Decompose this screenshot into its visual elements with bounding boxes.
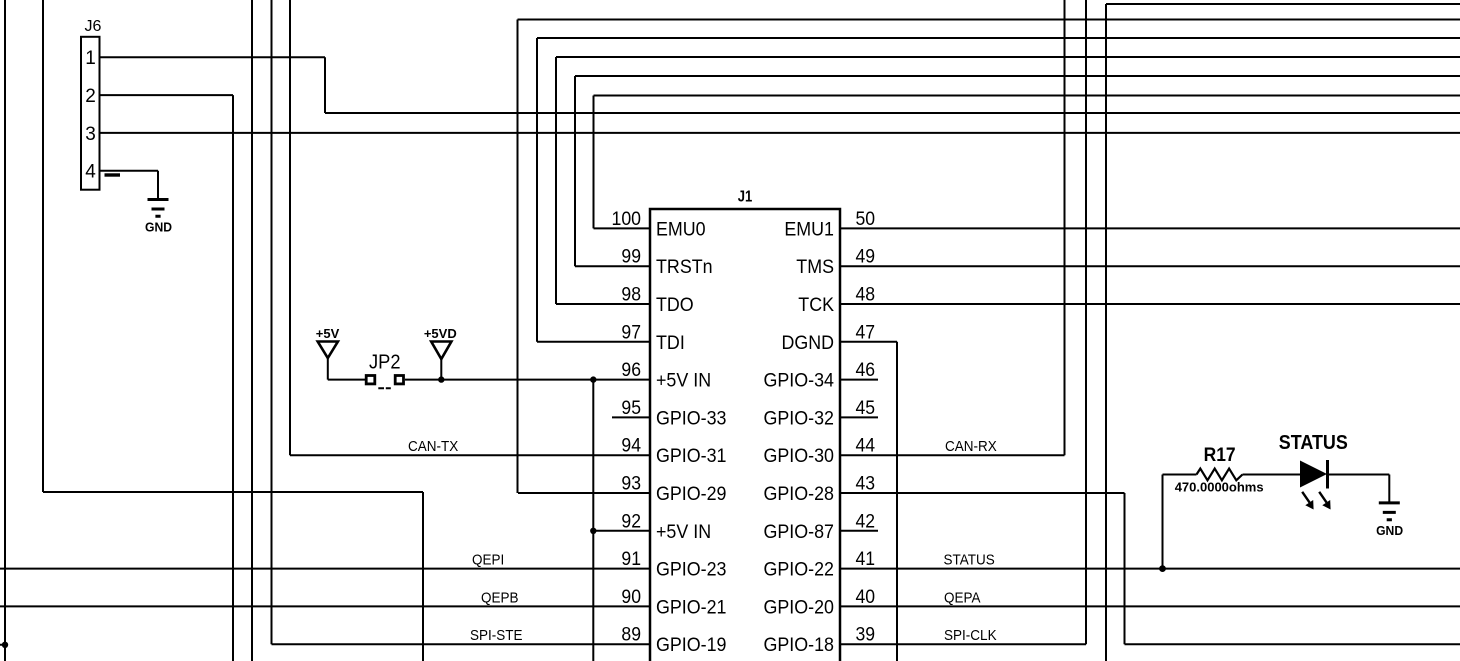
svg-text:TMS: TMS [796,257,834,278]
svg-text:GPIO-22: GPIO-22 [764,560,835,581]
svg-text:DGND: DGND [782,333,835,354]
svg-text:+5V IN: +5V IN [656,371,711,392]
svg-text:GPIO-21: GPIO-21 [656,597,727,618]
svg-text:1: 1 [85,48,96,69]
svg-text:2: 2 [85,86,96,107]
svg-text:40: 40 [856,587,876,608]
svg-text:43: 43 [856,474,876,495]
svg-text:100: 100 [612,209,642,230]
svg-text:GPIO-20: GPIO-20 [764,597,835,618]
svg-text:49: 49 [856,247,876,268]
svg-text:50: 50 [856,209,876,230]
svg-text:90: 90 [621,587,641,608]
svg-text:GPIO-34: GPIO-34 [764,371,835,392]
svg-text:4: 4 [85,162,96,183]
svg-text:EMU1: EMU1 [784,219,834,240]
svg-text:EMU0: EMU0 [656,219,706,240]
svg-text:GPIO-29: GPIO-29 [656,484,727,505]
svg-text:TDI: TDI [656,333,685,354]
svg-text:QEPB: QEPB [481,589,519,606]
svg-text:99: 99 [621,247,641,268]
svg-text:GPIO-23: GPIO-23 [656,560,727,581]
svg-text:97: 97 [621,322,641,343]
svg-text:STATUS: STATUS [1279,432,1348,454]
svg-text:GND: GND [1376,523,1403,538]
svg-text:93: 93 [621,474,641,495]
svg-text:J1: J1 [738,189,753,206]
svg-text:44: 44 [856,436,876,457]
svg-text:R17: R17 [1204,445,1236,466]
svg-text:89: 89 [621,625,641,646]
svg-text:45: 45 [856,398,876,419]
svg-text:STATUS: STATUS [944,552,995,569]
svg-text:48: 48 [856,285,876,306]
svg-text:46: 46 [856,360,876,381]
svg-text:TDO: TDO [656,295,694,316]
svg-text:SPI-STE: SPI-STE [470,627,523,644]
svg-text:96: 96 [621,360,641,381]
svg-text:CAN-TX: CAN-TX [408,438,458,455]
svg-text:GPIO-32: GPIO-32 [764,408,835,429]
svg-text:41: 41 [856,549,876,570]
svg-text:GPIO-33: GPIO-33 [656,408,727,429]
svg-text:TCK: TCK [798,295,834,316]
svg-text:J6: J6 [85,18,102,35]
svg-text:92: 92 [621,511,641,532]
svg-text:95: 95 [621,398,641,419]
svg-text:GND: GND [145,220,172,235]
svg-text:QEPA: QEPA [944,589,981,606]
svg-text:3: 3 [85,124,96,145]
svg-text:+5V: +5V [316,326,340,341]
svg-text:GPIO-31: GPIO-31 [656,446,727,467]
svg-text:TRSTn: TRSTn [656,257,713,278]
svg-text:47: 47 [856,322,876,343]
svg-text:91: 91 [621,549,641,570]
svg-text:GPIO-30: GPIO-30 [764,446,835,467]
svg-text:42: 42 [856,511,876,532]
svg-text:JP2: JP2 [369,352,401,374]
svg-text:GPIO-19: GPIO-19 [656,635,727,656]
svg-text:SPI-CLK: SPI-CLK [944,627,997,644]
svg-text:GPIO-87: GPIO-87 [764,522,835,543]
svg-text:GPIO-28: GPIO-28 [764,484,835,505]
svg-text:+5V IN: +5V IN [656,522,711,543]
svg-text:GPIO-18: GPIO-18 [764,635,835,656]
svg-text:94: 94 [621,436,641,457]
svg-text:470.0000ohms: 470.0000ohms [1175,480,1264,495]
svg-text:39: 39 [856,625,876,646]
svg-text:+5VD: +5VD [424,326,457,341]
svg-text:98: 98 [621,285,641,306]
svg-text:CAN-RX: CAN-RX [945,438,997,455]
svg-text:QEPI: QEPI [472,552,504,569]
